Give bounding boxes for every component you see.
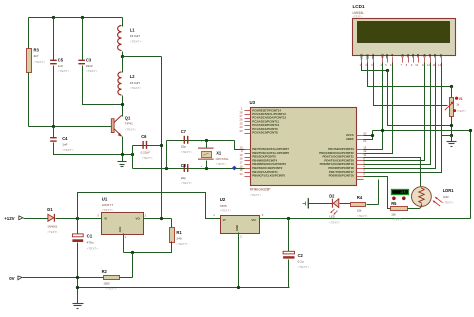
svg-text:D3: D3 xyxy=(416,53,420,57)
svg-text:C3: C3 xyxy=(86,57,92,62)
wire cell to D2 xyxy=(309,203,333,205)
pin stub U3 PB5 pin 19 xyxy=(245,157,251,159)
svg-text:<TEXT>: <TEXT> xyxy=(102,208,113,212)
svg-text:<TEXT>: <TEXT> xyxy=(47,230,58,234)
svg-text:23: 23 xyxy=(239,129,243,133)
svg-text:<TEXT>: <TEXT> xyxy=(329,220,340,224)
wire +12V to D1 xyxy=(24,218,49,220)
ground below Q1 emitter xyxy=(122,155,124,162)
node marker blue diamond xyxy=(232,166,237,171)
wire +5V rail xyxy=(260,218,471,220)
svg-text:1500: 1500 xyxy=(103,281,110,285)
junction RV1 top node xyxy=(450,85,453,88)
pin stub U3 PB6 pin 9 xyxy=(245,153,251,155)
display LCD1 screen xyxy=(358,22,450,43)
svg-text:20: 20 xyxy=(363,132,367,136)
svg-text:R4: R4 xyxy=(357,195,363,200)
junction emitter/ground xyxy=(121,153,124,156)
wire C4 top lead xyxy=(53,127,55,139)
svg-text:<TEXT>: <TEXT> xyxy=(130,40,142,44)
resistor R5 xyxy=(391,207,408,211)
wire C6 row xyxy=(133,145,162,147)
wire D2 to R4 xyxy=(340,203,351,205)
voltmeter terminal - xyxy=(402,197,406,201)
resistor R4 xyxy=(351,203,366,207)
wire R3 bottom lead xyxy=(28,73,30,127)
svg-text:D2: D2 xyxy=(329,193,335,198)
pin stub U3 PC5 pin 28 xyxy=(245,114,251,116)
wire R2 riser xyxy=(132,253,134,278)
wire E column to U3 PD6 xyxy=(364,63,393,154)
svg-text:VI: VI xyxy=(104,216,107,220)
svg-text:U3: U3 xyxy=(250,100,256,105)
wire L1 top lead xyxy=(122,18,124,27)
voltmeter terminal + xyxy=(392,197,396,201)
svg-text:<TEXT>: <TEXT> xyxy=(392,218,403,222)
wire VEE column to RV1 wiper xyxy=(374,63,448,106)
pin stub U3 PD6 pin 12 xyxy=(357,153,364,155)
pin stub U3 PD5 pin 11 xyxy=(357,157,364,159)
svg-text:VI: VI xyxy=(223,218,226,222)
pin stub U3 PC2 pin 25 xyxy=(245,125,251,127)
junction emitter row end xyxy=(131,153,134,156)
resistor R1 xyxy=(170,228,175,243)
pin stub U3 AVCC pin 20 xyxy=(357,135,364,137)
svg-text:<TEXT>: <TEXT> xyxy=(457,109,467,113)
pin stub U3 PC1 pin 24 xyxy=(245,129,251,131)
svg-text:CRYSTAL: CRYSTAL xyxy=(216,157,229,161)
junction L1/L2 tap xyxy=(121,55,124,58)
svg-text:LDR: LDR xyxy=(443,195,449,199)
svg-text:<TEXT>: <TEXT> xyxy=(58,69,70,73)
wire R1 top lead xyxy=(171,219,173,228)
svg-text:LM016L: LM016L xyxy=(353,11,365,15)
svg-text:ADJ: ADJ xyxy=(118,226,122,232)
svg-text:LM317T: LM317T xyxy=(102,203,113,207)
svg-text:GND: GND xyxy=(235,225,239,231)
wire U1 VO to feed node xyxy=(144,218,172,220)
svg-text:<TEXT>: <TEXT> xyxy=(443,200,454,204)
junction ground rail / C1 column xyxy=(76,286,79,289)
svg-text:<TEXT>: <TEXT> xyxy=(176,242,188,246)
pin stub U3 extra row xyxy=(357,179,364,181)
svg-text:<TEXT>: <TEXT> xyxy=(125,128,136,132)
svg-text:R5: R5 xyxy=(391,201,397,206)
junction collector node xyxy=(121,103,124,106)
pin stub U3 PD1 pin 3 xyxy=(357,172,364,174)
resistor R3 xyxy=(27,49,32,73)
svg-text:D2: D2 xyxy=(411,53,415,57)
pin stub U3 PC4 pin 27 xyxy=(245,118,251,120)
pin stub U3 PB7 pin 10 xyxy=(245,149,251,151)
wire C1 bottom to ground rail xyxy=(77,243,79,304)
wire D6 column to U3 PD2 xyxy=(364,63,436,169)
svg-text:L2: L2 xyxy=(130,74,136,79)
wire ground branch left xyxy=(442,135,452,137)
svg-text:<TEXT>: <TEXT> xyxy=(220,209,231,213)
junction VSS/RW xyxy=(386,69,389,72)
svg-text:1N4001: 1N4001 xyxy=(47,225,58,229)
capacitor C6 xyxy=(142,141,143,149)
svg-text:<TEXT>: <TEXT> xyxy=(181,150,192,154)
wire RV1 top lead xyxy=(451,87,453,98)
svg-text:10k: 10k xyxy=(357,209,362,213)
svg-text:14: 14 xyxy=(239,172,243,176)
junction right edge corner xyxy=(469,129,472,132)
pin stub U3 PB2 pin 16 xyxy=(245,168,251,170)
wire D7 column to U3 PD1 xyxy=(364,63,442,173)
wire C2 bottom to ground rail xyxy=(288,260,290,288)
pin stub U3 PC3 pin 26 xyxy=(245,121,251,123)
svg-text:R2: R2 xyxy=(102,269,108,274)
svg-text:<TEXT>: <TEXT> xyxy=(216,162,227,166)
pin stub U3 PB0 pin 14 xyxy=(245,176,251,178)
svg-text:Q1: Q1 xyxy=(125,116,131,121)
capacitor C7 xyxy=(184,136,185,144)
wire U1 ADJ lead xyxy=(123,234,125,253)
junction top rail / C3 xyxy=(81,16,84,19)
svg-text:U1: U1 xyxy=(102,196,108,201)
wire R5 riser from U3 xyxy=(364,177,391,209)
wire R1 bottom to ADJ row xyxy=(124,242,172,253)
svg-text:15.6uH: 15.6uH xyxy=(130,81,140,85)
svg-text:22nF: 22nF xyxy=(86,64,93,68)
pin stub U3 PC0 pin 23 xyxy=(245,133,251,135)
svg-text:D7: D7 xyxy=(439,53,443,57)
svg-text:E: E xyxy=(390,54,394,56)
junction U2 GND / ground rail xyxy=(237,286,240,289)
svg-text:R1: R1 xyxy=(176,230,182,235)
svg-text:-0.5: -0.5 xyxy=(400,190,406,194)
light arrows LDR1 xyxy=(434,201,441,206)
wire VSS to RW ground link xyxy=(362,63,388,71)
pin stub U3 PD7 pin 13 xyxy=(357,149,364,151)
junction +5V / C2 xyxy=(287,217,290,220)
svg-text:C7: C7 xyxy=(181,129,187,134)
led D2 xyxy=(331,199,333,208)
pin stub U3 PD4 pin 6 xyxy=(357,160,364,162)
svg-text:1nF: 1nF xyxy=(58,64,63,68)
svg-text:22p: 22p xyxy=(181,145,186,149)
battery cell marker xyxy=(303,203,306,205)
svg-text:7805: 7805 xyxy=(220,204,227,208)
ground bottom-left xyxy=(73,303,84,305)
svg-text:L1: L1 xyxy=(130,28,136,33)
svg-text:<TEXT>: <TEXT> xyxy=(142,156,153,160)
wire R2 to ADJ riser xyxy=(120,277,133,279)
wire C4 bottom to emitter row xyxy=(54,143,133,155)
junction RV1 ground node xyxy=(450,134,453,137)
ground at RV1 xyxy=(451,136,453,142)
svg-text:0.1u: 0.1u xyxy=(298,259,304,263)
junction lower row / cap connector xyxy=(165,167,168,170)
crystal X1 xyxy=(206,141,208,149)
junction ADJ / R2 node xyxy=(131,251,134,254)
wire RS column to U3 PD7 xyxy=(364,63,383,150)
svg-text:10k: 10k xyxy=(391,212,396,216)
junction AVCC wire / RS column xyxy=(381,129,384,132)
wire R4 to U3 PD0 riser xyxy=(367,204,379,206)
svg-text:0.22uF: 0.22uF xyxy=(141,150,151,154)
svg-text:D5: D5 xyxy=(428,53,432,57)
pin stub U3 PC6 pin 1 xyxy=(245,110,251,112)
junction X1 bottom xyxy=(205,167,208,170)
svg-text:240: 240 xyxy=(176,236,181,240)
svg-text:+12V: +12V xyxy=(4,216,14,221)
svg-text:<TEXT>: <TEXT> xyxy=(87,247,99,251)
wire 0V rail xyxy=(23,277,104,279)
svg-text:<TEXT>: <TEXT> xyxy=(250,193,261,197)
wire L2 bottom / Q1 collector xyxy=(122,96,124,117)
svg-text:LDR1: LDR1 xyxy=(443,188,454,193)
capacitor C5 xyxy=(50,60,57,61)
svg-text:15.6uH: 15.6uH xyxy=(130,34,140,38)
pin stub U3 PB1 pin 15 xyxy=(245,172,251,174)
junction top rail / C5 xyxy=(52,16,55,19)
svg-text:<TEXT>: <TEXT> xyxy=(34,60,46,64)
wire ground rail bottom xyxy=(78,287,290,289)
regulator U1 LM317T body xyxy=(102,213,144,235)
wire U2 GND lead xyxy=(238,233,240,288)
capacitor C1 470u xyxy=(77,219,79,235)
pin stub U3 PD0 pin 2 xyxy=(357,176,364,178)
svg-text:<TEXT>: <TEXT> xyxy=(181,181,192,185)
wire tap to vertical feed xyxy=(123,56,162,58)
wire C5 top lead xyxy=(53,18,55,61)
potentiometer RV1 xyxy=(450,98,454,117)
svg-text:4k7: 4k7 xyxy=(34,54,39,58)
svg-text:C6: C6 xyxy=(141,134,147,139)
svg-text:V1: V1 xyxy=(459,97,463,101)
svg-text:470u: 470u xyxy=(87,241,94,245)
wire C5 bottom lead xyxy=(53,66,55,127)
wire RV1 bottom lead xyxy=(451,117,453,136)
svg-text:VO: VO xyxy=(135,216,140,220)
pin stub U3 PD3 pin 5 xyxy=(357,164,364,166)
svg-text:LCD1: LCD1 xyxy=(353,4,365,9)
svg-text:<TEXT>: <TEXT> xyxy=(298,265,310,269)
resistor R2 xyxy=(104,276,120,280)
svg-text:AREF: AREF xyxy=(346,137,354,141)
capacitor C2 0.1u xyxy=(288,219,290,252)
pin stub U3 PB3 pin 17 xyxy=(245,164,251,166)
wire C6/C8 left connector xyxy=(132,146,134,169)
junction +12V node xyxy=(76,217,79,220)
wire D5 column to U3 PD3 xyxy=(364,63,431,165)
text RV1 xyxy=(453,109,456,112)
pin stub U3 PD2 pin 4 xyxy=(357,168,364,170)
regulator U2 7805 body xyxy=(221,216,260,234)
label RV1 xyxy=(455,97,458,100)
wire crystal cap row lower xyxy=(133,168,245,170)
svg-text:C5: C5 xyxy=(58,57,64,62)
display LCD1 LM016L body xyxy=(353,19,456,56)
svg-text:C1: C1 xyxy=(87,233,93,238)
capacitor C4 xyxy=(50,137,57,138)
wire Q1 emitter lead xyxy=(122,137,124,155)
junction X1 top xyxy=(205,139,208,142)
junction 0V / C1 column xyxy=(76,276,79,279)
svg-text:PB0/ICP1/CLKO/PCINT0: PB0/ICP1/CLKO/PCINT0 xyxy=(252,174,285,178)
svg-text:U2: U2 xyxy=(220,197,226,202)
wire R3 top lead xyxy=(28,18,30,49)
svg-text:LED: LED xyxy=(329,214,335,218)
svg-text:ATMEGA328P: ATMEGA328P xyxy=(250,188,271,192)
wire vertical feed line xyxy=(161,57,163,219)
wire AVCC to +5V right edge xyxy=(373,131,471,219)
svg-text:C4: C4 xyxy=(62,136,68,141)
svg-text:PD0/RXD/PCINT16: PD0/RXD/PCINT16 xyxy=(329,174,355,178)
svg-text:PC0/ADC0/PCINT8: PC0/ADC0/PCINT8 xyxy=(252,131,278,135)
diode D1 1N4001 xyxy=(48,214,54,221)
wire L2 top lead xyxy=(122,57,124,73)
svg-text:VO: VO xyxy=(251,218,256,222)
svg-text:<TEXT>: <TEXT> xyxy=(130,86,142,90)
inductor L1 xyxy=(118,26,122,51)
svg-text:1nF: 1nF xyxy=(62,143,67,147)
svg-text:C2: C2 xyxy=(298,253,304,258)
wire +12V bypass to U2 VI xyxy=(78,193,221,219)
photoresistor LDR1 xyxy=(412,187,432,207)
wire VDD column to RV1 top xyxy=(368,63,452,87)
wire C3 bottom lead to collector node xyxy=(83,66,123,105)
wire RW column to RV1 bottom xyxy=(388,71,452,126)
wire C7 row xyxy=(167,140,235,142)
wire C3 top lead xyxy=(82,18,84,61)
svg-text:<TEXT>: <TEXT> xyxy=(62,148,73,152)
svg-text:<TEXT>: <TEXT> xyxy=(86,69,98,73)
svg-text:C8: C8 xyxy=(181,163,187,168)
wire D1 to U1 VI xyxy=(56,218,102,220)
svg-text:22p: 22p xyxy=(181,176,186,180)
inductor L2 xyxy=(118,72,122,95)
pin stub U3 AREF pin 21 xyxy=(357,139,364,141)
svg-text:<TEXT>: <TEXT> xyxy=(353,15,363,19)
svg-text:R3: R3 xyxy=(34,48,40,53)
wire Q1 base row xyxy=(29,126,112,128)
voltmeter instrument xyxy=(392,190,409,195)
transistor Q1 TIP41 xyxy=(111,119,114,133)
svg-text:D1: D1 xyxy=(406,53,410,57)
wire C7/C8 left vertical xyxy=(166,141,168,169)
svg-text:0V: 0V xyxy=(9,276,14,281)
wire LDR1 top to U3 PD5 xyxy=(364,158,421,188)
wire AVCC/AREF riser xyxy=(364,135,373,137)
wire L1 bottom lead xyxy=(122,52,124,57)
pin stub U3 PB4 pin 18 xyxy=(245,160,251,162)
svg-text:D1: D1 xyxy=(47,207,53,212)
wire R5 to LDR1 xyxy=(408,207,422,209)
junction AVCC node xyxy=(371,134,374,137)
svg-text:<TEXT>: <TEXT> xyxy=(357,214,368,218)
capacitor C3 xyxy=(78,60,85,61)
wire D4 column to U3 PD4 xyxy=(364,63,425,161)
junction base row / C4 xyxy=(52,125,55,128)
svg-text:X1: X1 xyxy=(216,151,222,156)
junction VO / feed line xyxy=(160,217,163,220)
op-amp U3 ATMEGA328P body xyxy=(251,108,357,186)
svg-text:TIP41: TIP41 xyxy=(125,122,133,126)
junction C6 / feed line xyxy=(160,144,163,147)
wire top rail xyxy=(29,17,123,19)
junction RV1 bottom / RW wire xyxy=(450,124,453,127)
capacitor C8 xyxy=(184,164,185,172)
wire C7 row to XTAL2 pin xyxy=(235,141,245,150)
